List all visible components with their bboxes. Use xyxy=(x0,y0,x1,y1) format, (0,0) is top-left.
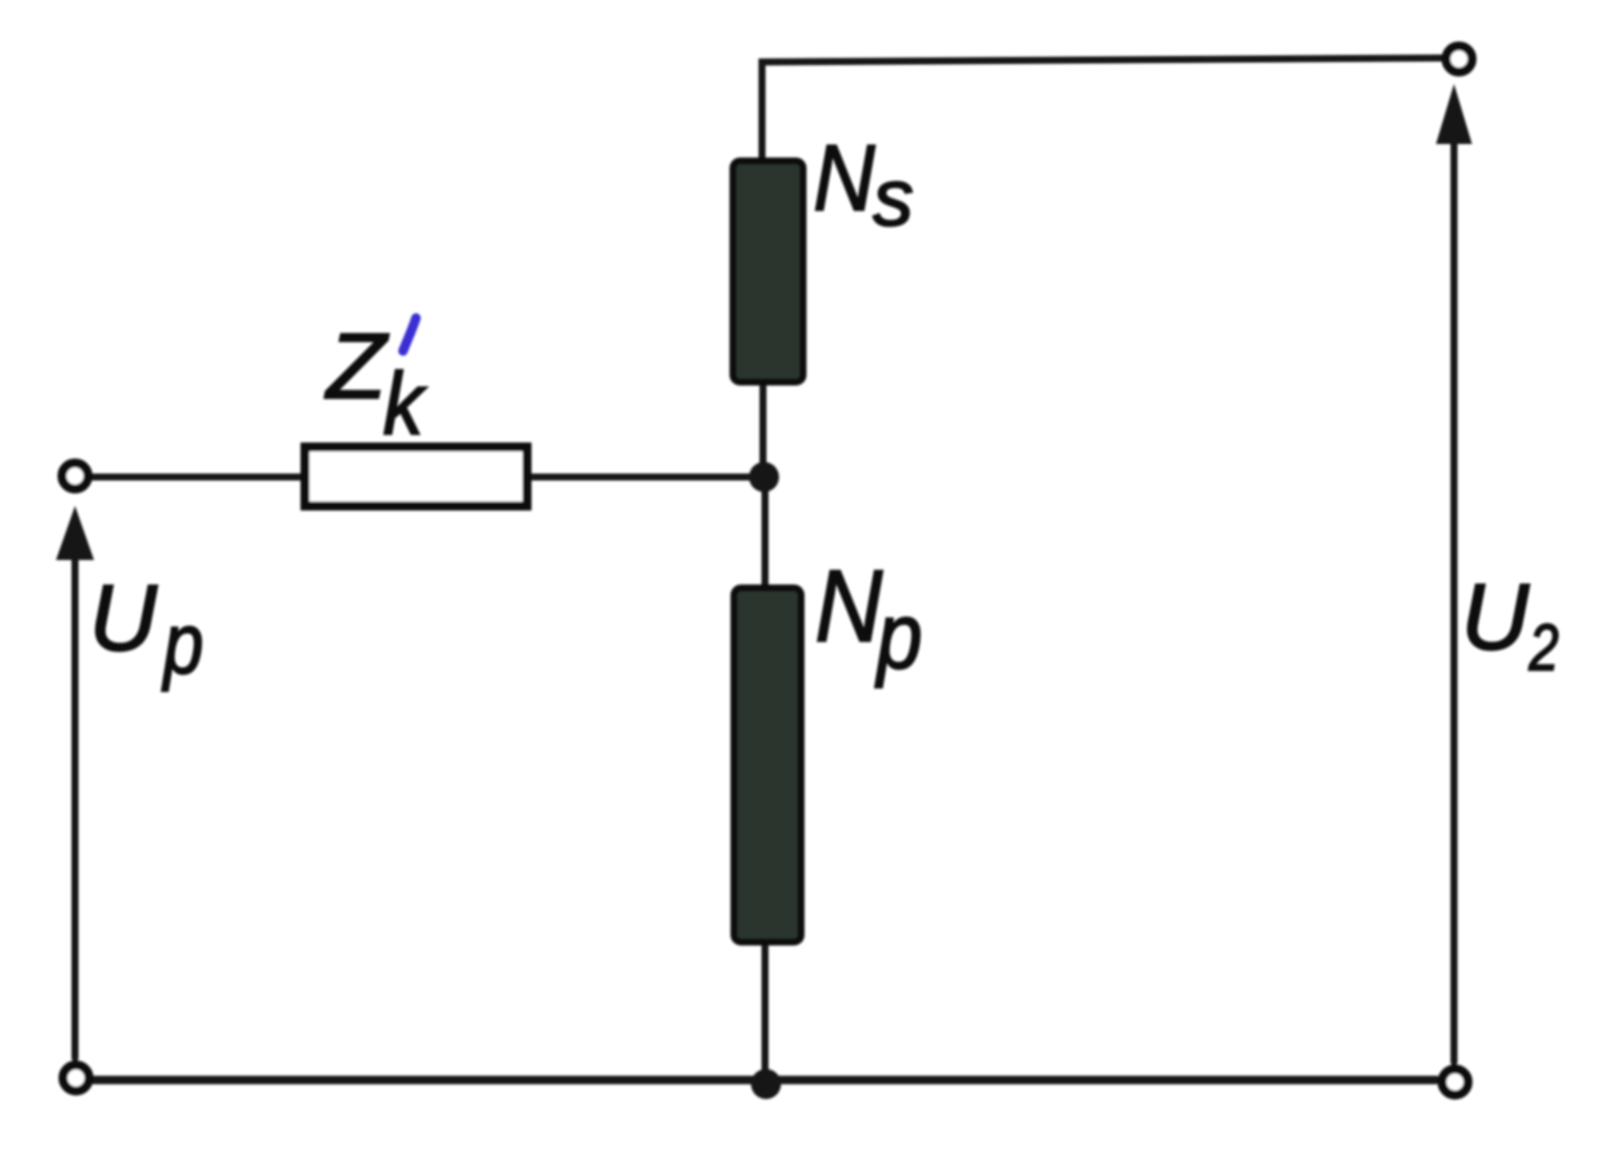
svg-text:s: s xyxy=(873,153,914,243)
svg-text:U: U xyxy=(1461,564,1530,669)
svg-text:2: 2 xyxy=(1528,611,1559,685)
svg-text:k: k xyxy=(383,355,427,453)
svg-text:Z: Z xyxy=(324,315,389,418)
svg-text:U: U xyxy=(89,565,158,670)
svg-text:N: N xyxy=(815,548,883,663)
svg-text:N: N xyxy=(813,126,875,231)
svg-text:p: p xyxy=(874,583,922,689)
svg-text:p: p xyxy=(162,595,204,692)
